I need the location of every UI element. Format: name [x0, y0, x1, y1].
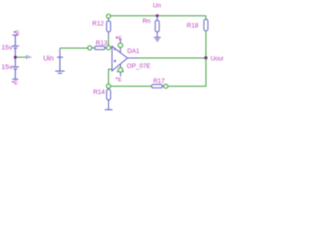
- wire Uin top corner to R13: [60, 47, 90, 49]
- svg-text:15v: 15v: [1, 44, 13, 51]
- battery V2 15v (bottom left): [12, 57, 19, 79]
- minus mark (inverting): [114, 48, 116, 50]
- junction dot at Rn top: [156, 14, 159, 17]
- svg-text:E: E: [118, 36, 122, 42]
- svg-text:OP_07E: OP_07E: [127, 63, 151, 70]
- pin circle R13 left: [88, 46, 92, 50]
- svg-text:R14: R14: [93, 89, 105, 96]
- tie -E (op-amp): [116, 78, 118, 79]
- svg-text:R13: R13: [96, 40, 108, 47]
- svg-text:E: E: [118, 78, 122, 84]
- wire R14 node up to non-inverting input: [109, 69, 113, 84]
- svg-text:Un: Un: [153, 3, 162, 10]
- junction dot (battery midpoint): [14, 56, 17, 59]
- pin circle R12 top: [106, 14, 110, 18]
- op-amp V+ pin: [119, 39, 121, 53]
- ground (below Rn): [154, 37, 161, 41]
- wire output to node: [138, 57, 206, 59]
- svg-text:R18: R18: [187, 22, 199, 29]
- junction dot output node: [204, 56, 207, 59]
- wire top feedback rail: [111, 15, 206, 17]
- resistor R18 (vertical, right): [204, 16, 208, 31]
- tie +E (op-amp): [116, 36, 118, 38]
- op-amp V- pin: [120, 64, 122, 76]
- resistor R17 (horizontal): [152, 85, 164, 88]
- svg-text:Uin: Uin: [43, 55, 54, 62]
- svg-text:Rn: Rn: [143, 18, 152, 25]
- pin circle R17 right: [164, 84, 168, 88]
- lead to op-amp inverting input: [111, 47, 113, 49]
- V- pin end bar: [117, 71, 124, 73]
- resistor R13 (horizontal): [92, 46, 107, 49]
- svg-text:R12: R12: [92, 20, 104, 27]
- pin circle R14 top: [106, 84, 110, 88]
- wire R12 bottom to inverting node: [108, 36, 110, 46]
- svg-text:E: E: [14, 81, 18, 87]
- resistor R14 (vertical): [105, 88, 113, 110]
- ground (left, sideways): [27, 55, 31, 59]
- wire battery midpoint to ground: [15, 56, 26, 58]
- pin circle V+: [118, 43, 123, 48]
- resistor Rn (vertical): [155, 16, 159, 37]
- svg-text:15v: 15v: [1, 64, 13, 71]
- pin circle V-: [118, 68, 123, 73]
- wire output node down to feedback bottom: [168, 58, 206, 86]
- svg-text:DA1: DA1: [127, 48, 140, 55]
- tie +E (left): [14, 31, 16, 33]
- svg-text:R17: R17: [153, 78, 165, 85]
- battery V1 15v (top left): [12, 35, 19, 57]
- tie -E (left): [12, 81, 14, 82]
- battery Uin source: [55, 57, 64, 73]
- op-amp DA1 triangle: [112, 46, 128, 71]
- op-amp output lead: [128, 57, 139, 59]
- wire R17 left to R14 node: [111, 85, 152, 87]
- svg-text:Uout: Uout: [211, 55, 223, 62]
- pin circle R13 right / inverting node: [106, 46, 110, 50]
- wire R18 bottom to output node: [205, 31, 207, 58]
- resistor R12 (vertical, feedback): [107, 19, 111, 36]
- plus mark (non-inverting): [114, 60, 116, 62]
